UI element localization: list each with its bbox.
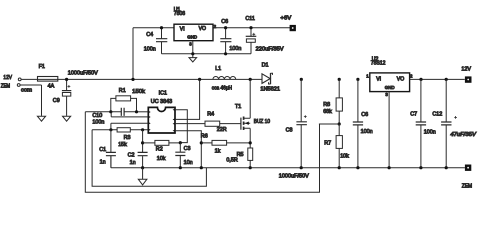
wire VCC pin to main rail <box>175 79 200 119</box>
svg-text:R2: R2 <box>156 147 163 153</box>
node 12V input circle <box>18 78 21 81</box>
ground rail under U1 <box>162 53 252 55</box>
ground symbol IC section <box>138 168 147 185</box>
node junction C3 top <box>179 141 182 144</box>
node 12V output terminal <box>465 76 472 82</box>
capacitor C5 <box>353 79 363 167</box>
wire main rail input to fuse <box>21 78 37 80</box>
svg-text:12V: 12V <box>461 67 471 73</box>
svg-text:C11: C11 <box>245 16 255 22</box>
node junction R6 ground <box>200 166 203 169</box>
svg-text:78S12: 78S12 <box>371 61 386 67</box>
svg-text:1: 1 <box>366 73 369 78</box>
svg-text:cca 46µH: cca 46µH <box>212 85 232 91</box>
resistor R6 <box>201 140 250 145</box>
svg-text:VO: VO <box>199 26 206 32</box>
wire main rail fuse to U2 <box>58 78 262 80</box>
svg-text:7806: 7806 <box>174 11 185 17</box>
node junction L1 to T1 drain <box>249 78 252 81</box>
svg-text:150k: 150k <box>132 89 145 95</box>
capacitor C11 electrolytic <box>246 28 257 54</box>
capacitor C10 in node wire <box>111 108 137 116</box>
resistor R1 parallel over C10 <box>111 96 137 112</box>
node ZEM output terminal <box>465 165 471 171</box>
svg-text:1000uF/50V: 1000uF/50V <box>279 173 309 179</box>
svg-text:10k: 10k <box>157 156 166 162</box>
wire feedback tap to divider <box>319 123 339 125</box>
svg-text:C4: C4 <box>146 32 153 38</box>
svg-text:3: 3 <box>385 92 388 97</box>
node junction R5 bottom <box>249 166 252 169</box>
svg-text:3: 3 <box>189 42 192 47</box>
node junction compensation left <box>109 110 112 113</box>
wire pin6 to R6 and ground <box>175 131 201 168</box>
chip IC1 UC3843 <box>148 107 175 133</box>
node junction R8 top <box>338 78 341 81</box>
node junction C9 <box>65 78 68 81</box>
svg-text:R6: R6 <box>201 133 208 139</box>
svg-text:GND: GND <box>187 35 197 40</box>
node junction C12 bottom <box>445 166 448 169</box>
resistor R4 <box>175 121 241 126</box>
node junction C1 bottom corner <box>110 156 112 168</box>
svg-text:+6V: +6V <box>280 16 291 22</box>
svg-text:com: com <box>21 87 33 93</box>
svg-text:ZEM: ZEM <box>1 83 11 89</box>
ground symbol under C9 <box>63 116 71 121</box>
svg-text:C1: C1 <box>99 147 106 153</box>
op-amp U2 regulator 78S12 box <box>370 73 410 92</box>
resistor R8 <box>336 79 342 124</box>
node junction C2/R2 <box>141 141 144 144</box>
svg-text:22R: 22R <box>217 127 227 133</box>
ground rail bottom <box>111 167 465 169</box>
svg-text:C7: C7 <box>410 111 417 117</box>
svg-text:C12: C12 <box>432 112 442 118</box>
node junction C6 top <box>224 26 227 29</box>
svg-text:C6: C6 <box>361 112 368 118</box>
svg-text:220uF/35V: 220uF/35V <box>256 46 284 52</box>
capacitor C9 electrolytic <box>62 79 71 116</box>
svg-text:100n: 100n <box>229 46 241 52</box>
svg-text:GND: GND <box>385 85 395 90</box>
node junction U1 gnd <box>191 52 194 55</box>
svg-text:R4: R4 <box>207 111 214 117</box>
node junction R8/R7 divider <box>338 122 341 125</box>
svg-text:IC1: IC1 <box>159 90 167 96</box>
svg-text:D1: D1 <box>262 62 269 68</box>
wire inner ground loop <box>92 130 206 187</box>
node junction C8 top <box>300 78 303 81</box>
svg-text:L1: L1 <box>215 66 221 72</box>
node +6V output terminal <box>290 25 296 31</box>
node junction C5 bottom <box>356 166 359 169</box>
svg-text:2: 2 <box>410 73 413 78</box>
svg-text:T1: T1 <box>235 104 241 110</box>
node junction compensation right <box>135 110 138 113</box>
svg-text:0,5R: 0,5R <box>226 157 237 163</box>
ground symbol under U1 <box>189 54 197 62</box>
svg-text:10n: 10n <box>184 160 193 166</box>
svg-text:12V: 12V <box>3 75 12 81</box>
diode D1 1N5821 <box>262 73 273 84</box>
node junction R3 left <box>109 128 112 131</box>
svg-text:R1: R1 <box>119 88 126 94</box>
svg-text:1n: 1n <box>130 160 136 166</box>
svg-text:VO: VO <box>397 76 404 82</box>
svg-text:UC 3843: UC 3843 <box>151 99 173 105</box>
node junction T1 source / R6 <box>249 141 252 144</box>
wire node to pin1 <box>137 111 149 113</box>
svg-text:100n: 100n <box>92 119 104 125</box>
resistor R3 <box>92 128 148 132</box>
wire top rail left segment <box>133 27 174 29</box>
wire pin3 down to R3 node <box>111 123 148 130</box>
node junction R7 bottom <box>338 166 341 169</box>
capacitor C6 top <box>220 28 231 54</box>
node junction R3 right <box>141 128 144 131</box>
svg-text:15k: 15k <box>118 142 127 148</box>
capacitor C4 <box>156 28 167 54</box>
wire U2 GND down to ground rail <box>388 92 390 168</box>
svg-text:F1: F1 <box>39 64 45 70</box>
fuse F1 <box>38 77 58 82</box>
svg-text:R3: R3 <box>124 135 131 141</box>
svg-text:100n: 100n <box>424 130 436 136</box>
pin marks left of IC1 <box>148 109 175 132</box>
wire main rail U2 output <box>410 78 465 80</box>
svg-text:100n: 100n <box>144 46 156 52</box>
svg-text:C10: C10 <box>92 113 102 119</box>
svg-text:R7: R7 <box>324 140 331 146</box>
svg-text:4A: 4A <box>48 83 55 89</box>
inductor L1 <box>213 77 236 80</box>
node junction C7 bottom <box>419 166 422 169</box>
capacitor C2 <box>138 130 148 168</box>
wire outer feedback loop <box>85 112 319 193</box>
wire vertical from top rail to main rail <box>132 28 134 80</box>
svg-text:10k: 10k <box>340 153 349 159</box>
svg-text:ZEM: ZEM <box>462 184 473 190</box>
svg-text:VI: VI <box>376 77 381 83</box>
svg-text:68k: 68k <box>323 109 332 115</box>
resistor R7 <box>336 124 342 168</box>
capacitor C1 <box>106 130 116 168</box>
resistor R2 <box>143 140 181 145</box>
transistor T1 BUZ10 <box>241 79 250 148</box>
svg-text:1000uF/50V: 1000uF/50V <box>68 71 98 77</box>
wire U1 GND pin down <box>192 41 194 54</box>
node junction C3 bottom <box>179 166 182 169</box>
node junction C11 top <box>249 26 252 29</box>
node junction top-rail vertical <box>131 78 134 81</box>
resistor R5 <box>248 148 253 168</box>
wire pin8 to C3 node <box>175 110 187 143</box>
op-amp U1 regulator 7806 box <box>174 24 213 41</box>
wire top rail right segment to +6V terminal <box>213 27 291 29</box>
svg-text:47uF/35V: 47uF/35V <box>450 132 476 138</box>
node junction R6 left <box>200 141 203 144</box>
capacitor C12 electrolytic <box>441 79 457 167</box>
capacitor C3 <box>175 143 185 168</box>
wire compensation node left segment <box>85 111 111 113</box>
node junction C6 bottom <box>224 52 227 55</box>
node junction C2 bottom <box>141 166 144 169</box>
node junction C5 top <box>356 78 359 81</box>
svg-text:VI: VI <box>180 26 185 32</box>
svg-text:1n: 1n <box>100 159 106 165</box>
svg-text:100n: 100n <box>361 129 373 135</box>
svg-text:BUZ 10: BUZ 10 <box>254 119 270 125</box>
svg-text:1k: 1k <box>215 149 221 155</box>
svg-text:C2: C2 <box>128 153 135 159</box>
ground symbol input <box>37 116 45 121</box>
svg-text:C8: C8 <box>286 127 293 133</box>
svg-text:C6: C6 <box>221 19 228 25</box>
svg-text:C9: C9 <box>53 98 60 104</box>
wire ZEM input to ground <box>20 85 41 116</box>
capacitor C7 <box>416 79 426 167</box>
node junction U2 gnd bottom <box>388 166 391 169</box>
node junction C4 top <box>160 26 163 29</box>
node ZEM input circle <box>17 84 20 87</box>
node junction C8 bottom <box>300 166 303 169</box>
svg-text:C3: C3 <box>184 146 191 152</box>
node junction C7 top <box>419 78 422 81</box>
wire pin2 to node <box>111 112 148 117</box>
svg-text:R8: R8 <box>323 102 330 108</box>
node junction C12 top <box>445 78 448 81</box>
capacitor C8 <box>296 79 307 167</box>
svg-text:1N5821: 1N5821 <box>260 87 280 93</box>
node junction VCC takeoff <box>198 78 201 81</box>
